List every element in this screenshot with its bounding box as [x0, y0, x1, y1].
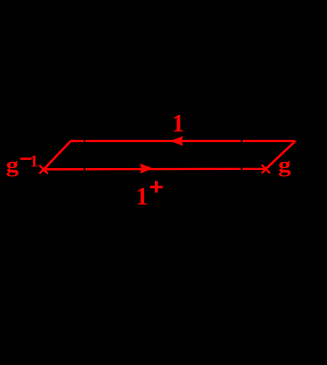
svg-text:g: g: [278, 152, 291, 177]
wire top edge segment 2: [85, 140, 240, 142]
wire top edge segment 3: [243, 140, 296, 142]
wire bottom edge segment 3: [243, 168, 266, 170]
arrowhead on top edge pointing left: [171, 137, 182, 145]
wire left diagonal edge (node g^-1 up to top rail): [44, 141, 71, 170]
wire top edge segment 1: [71, 140, 84, 142]
label plus superscript of 1^+: [150, 181, 163, 193]
wire right diagonal edge (top rail down to node g): [266, 141, 296, 169]
label minus superscript of g^-1: [20, 158, 31, 160]
node marker x (left, g^-1): [39, 165, 47, 173]
wire bottom edge segment 1: [44, 168, 84, 170]
arrowhead on bottom edge pointing right: [141, 164, 153, 173]
wire bottom edge segment 2: [85, 168, 240, 171]
svg-text:1: 1: [172, 110, 185, 137]
node marker x (right, g): [262, 165, 270, 173]
svg-text:1: 1: [136, 184, 149, 211]
svg-text:g: g: [6, 152, 19, 177]
svg-text:1: 1: [30, 151, 39, 170]
